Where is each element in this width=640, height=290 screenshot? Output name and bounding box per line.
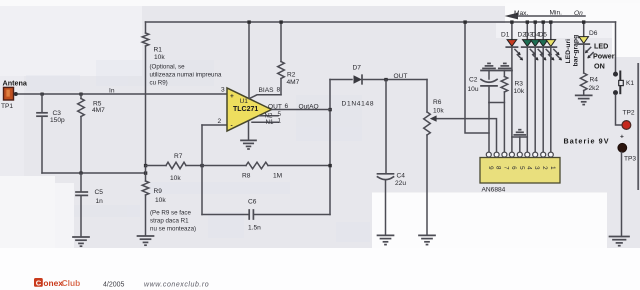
svg-text:LED: LED [594, 42, 608, 51]
svg-text:R6: R6 [433, 99, 442, 106]
svg-text:On: On [574, 10, 583, 17]
svg-text:cu R9): cu R9) [150, 79, 168, 86]
svg-text:R7: R7 [174, 153, 183, 160]
svg-text:C2: C2 [469, 77, 478, 84]
ground below R6 [419, 235, 435, 244]
ground op-amp [241, 140, 256, 149]
svg-text:2k2: 2k2 [589, 85, 600, 92]
capacitor C3 [37, 94, 47, 173]
svg-text:OutAO: OutAO [299, 104, 319, 111]
antenna terminal TP1 [4, 87, 18, 100]
svg-text:strap daca R1: strap daca R1 [150, 218, 189, 225]
ground below C5 [73, 237, 89, 246]
svg-text:7: 7 [502, 166, 509, 170]
svg-text:D1: D1 [501, 32, 510, 39]
wire BIAS pin 8 [251, 95, 282, 98]
svg-text:OUT: OUT [268, 104, 282, 111]
wire op-amp V- pin 4 [248, 121, 250, 140]
svg-text:K1: K1 [626, 80, 634, 87]
pin N2 stub [259, 115, 278, 117]
junction V+ drop on rail [463, 20, 466, 23]
svg-text:bar-grapg: bar-grapg [573, 35, 580, 67]
svg-text:5: 5 [518, 166, 525, 170]
svg-text:1n: 1n [96, 198, 104, 205]
svg-text:onex: onex [43, 278, 63, 288]
svg-text:Power: Power [593, 52, 615, 61]
ground up-symbol at R3 [499, 63, 511, 68]
ground below R4 [576, 95, 592, 104]
LED D1 [506, 20, 523, 152]
svg-text:R1: R1 [154, 46, 163, 53]
white scan boxes [0, 176, 55, 248]
junction feedback line [144, 171, 147, 174]
svg-text:22u: 22u [395, 180, 406, 187]
junction C5 top [79, 171, 82, 174]
svg-text:6: 6 [510, 166, 517, 170]
junction D7 output node [384, 78, 387, 81]
junction R8 right [328, 164, 331, 167]
svg-text:+: + [620, 133, 624, 140]
svg-text:Min.: Min. [550, 10, 563, 17]
svg-text:U1: U1 [240, 98, 249, 105]
bleed-through ghosts (decor) [26, 60, 370, 242]
LED D6 [578, 20, 593, 73]
svg-text:In: In [109, 88, 115, 95]
test point TP3 [618, 143, 627, 152]
LED D5 [545, 20, 562, 152]
wire V+ drop to pin 9 [465, 22, 489, 133]
capacitor C6 [202, 210, 330, 219]
svg-text:C4: C4 [397, 173, 406, 180]
wire top V+ rail [146, 21, 616, 23]
svg-text:R8: R8 [242, 172, 251, 179]
svg-text:R2: R2 [287, 72, 296, 79]
op-amp U1 TLC271 [227, 88, 272, 131]
wire ground bar pin 5 [512, 136, 527, 138]
svg-text:D5: D5 [539, 32, 548, 39]
ground up-symbol at C2 [483, 63, 495, 68]
svg-text:D7: D7 [353, 64, 362, 71]
wire pin 9 column [488, 103, 490, 153]
footer logo ConexClub [34, 278, 80, 288]
resistor R2 [278, 22, 285, 95]
svg-text:Max.: Max. [514, 10, 528, 17]
wire pin 2 lead [202, 124, 227, 126]
svg-text:BIAS: BIAS [259, 87, 275, 94]
svg-text:1: 1 [278, 117, 282, 124]
svg-text:4: 4 [525, 166, 532, 170]
svg-text:3: 3 [533, 166, 540, 170]
ground below R9 [138, 236, 154, 245]
ground below C4 [378, 235, 394, 244]
svg-text:Baterie 9V: Baterie 9V [564, 136, 610, 145]
svg-text:OUT: OUT [394, 73, 408, 80]
svg-text:9: 9 [487, 166, 494, 170]
svg-text:www.conexclub.ro: www.conexclub.ro [144, 281, 209, 288]
arrow Max-Min-On [505, 13, 586, 20]
svg-text:N1: N1 [266, 119, 274, 126]
svg-text:1M: 1M [273, 172, 282, 179]
svg-text:R9: R9 [154, 188, 163, 195]
wire feedback line C3/R5 to R1-R9 column [42, 172, 146, 174]
svg-text:10k: 10k [514, 88, 525, 95]
resistor R4 [580, 73, 587, 95]
wire In line TP1 to pin 3 [13, 93, 227, 95]
LED D3 [530, 20, 547, 152]
svg-text:R3: R3 [515, 80, 524, 87]
resistor R1 [142, 22, 149, 166]
svg-text:(Optional, se: (Optional, se [150, 63, 186, 70]
junction OUT node [328, 108, 331, 111]
svg-text:1: 1 [549, 166, 556, 170]
svg-text:-: - [231, 123, 233, 130]
svg-text:10u: 10u [468, 86, 479, 93]
svg-text:C: C [36, 279, 42, 288]
pin N1 stub [252, 121, 279, 123]
wire OUT pin 6 [272, 109, 331, 111]
ground below TP3 [610, 237, 630, 246]
scan page edge artifact right [637, 63, 639, 190]
svg-text:TP1: TP1 [1, 103, 13, 110]
junction R7 left [144, 164, 147, 167]
LED D2 [522, 20, 539, 152]
svg-text:LED-uri: LED-uri [565, 39, 572, 64]
svg-text:10k: 10k [433, 107, 444, 114]
svg-text:AN6884: AN6884 [482, 187, 506, 194]
svg-text:TP2: TP2 [623, 109, 635, 116]
svg-text:ON: ON [594, 61, 605, 70]
svg-text:(Pe R9 se face: (Pe R9 se face [150, 210, 191, 217]
svg-text:TP3: TP3 [624, 156, 636, 163]
wire pin 5 lead [519, 137, 521, 152]
resistor R7 [146, 162, 203, 169]
potentiometer R6 [424, 80, 497, 236]
LED D4 [538, 20, 555, 152]
svg-text:10k: 10k [155, 197, 166, 204]
wire op-amp V+ pin 7 [248, 22, 250, 99]
svg-text:2: 2 [541, 166, 548, 170]
svg-text:C5: C5 [95, 189, 104, 196]
capacitor C5 [76, 173, 87, 237]
svg-text:nu se monteaza): nu se monteaza) [150, 226, 196, 233]
svg-text:Antena: Antena [3, 78, 28, 87]
svg-text:4/2005: 4/2005 [103, 281, 125, 288]
svg-text:8: 8 [277, 87, 281, 94]
svg-text:D1N4148: D1N4148 [342, 100, 375, 107]
junction R2 on rail [279, 20, 282, 23]
svg-text:D6: D6 [589, 30, 598, 37]
node bar C2/R3 top [481, 70, 512, 72]
svg-text:3: 3 [221, 87, 225, 94]
svg-text:10k: 10k [170, 175, 181, 182]
svg-text:150p: 150p [50, 117, 65, 124]
test point TP2 [622, 121, 631, 130]
svg-text:10k: 10k [154, 54, 165, 61]
svg-text:2: 2 [218, 118, 222, 125]
IC AN6884 [480, 152, 560, 183]
switch K1 [613, 22, 623, 125]
resistor R9 [142, 167, 149, 236]
svg-text:+: + [230, 93, 234, 100]
svg-text:6: 6 [285, 103, 289, 110]
diode D7 1N4148 [330, 75, 427, 84]
svg-text:4M7: 4M7 [92, 107, 105, 114]
svg-text:utilizeaza numai impreuna: utilizeaza numai impreuna [150, 71, 222, 78]
svg-text:TLC271: TLC271 [233, 106, 258, 113]
wire pin2 feedback column [201, 125, 203, 215]
ground up-symbol pin 5 [514, 130, 525, 135]
resistor R3 [501, 71, 508, 153]
svg-text:1.5n: 1.5n [248, 224, 261, 231]
resistor R5 [78, 94, 85, 173]
svg-text:R4: R4 [590, 77, 599, 84]
junction V+ pin7 on rail [247, 20, 250, 23]
svg-text:C6: C6 [248, 198, 257, 205]
svg-text:C3: C3 [53, 110, 62, 117]
capacitor C2 [481, 71, 504, 103]
junction on In wire at R5 [79, 93, 82, 96]
svg-text:4M7: 4M7 [287, 79, 300, 86]
wire output column [329, 80, 331, 215]
junction R7/R8 node [200, 164, 203, 167]
capacitor C4 [378, 80, 394, 236]
junction on In wire at C3 [41, 93, 44, 96]
svg-text:Club: Club [62, 278, 81, 288]
wire TP3 to ground [621, 152, 623, 236]
resistor R8 [202, 162, 330, 169]
svg-text:8: 8 [495, 166, 502, 170]
